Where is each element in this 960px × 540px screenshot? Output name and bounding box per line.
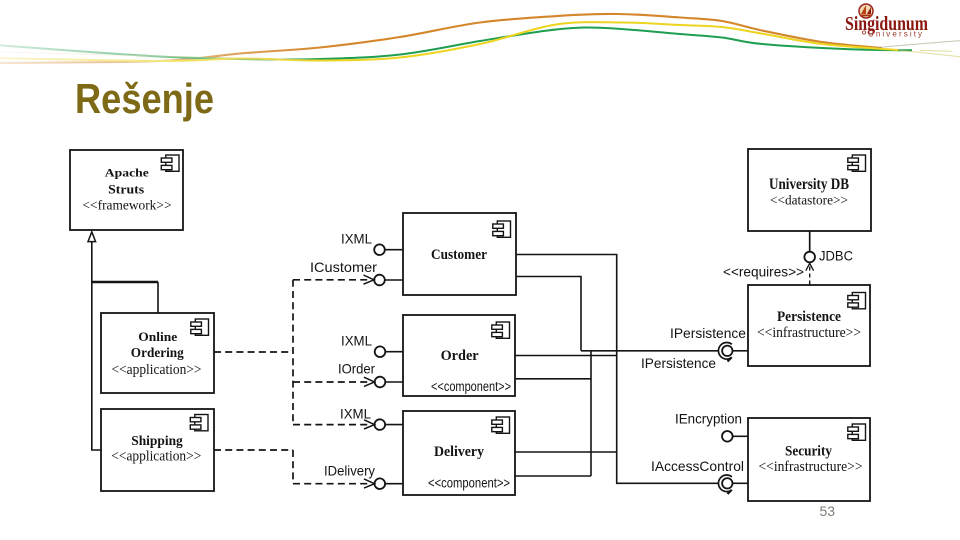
wire Customer to IPersistence (via V1) — [516, 277, 581, 351]
svg-text:<<datastore>>: <<datastore>> — [770, 194, 848, 209]
svg-text:Rešenje: Rešenje — [75, 75, 214, 122]
svg-text:Delivery: Delivery — [434, 444, 484, 460]
svg-text:IDelivery: IDelivery — [324, 463, 375, 479]
component University DB — [748, 149, 871, 231]
svg-text:<<application>>: <<application>> — [111, 449, 201, 465]
svg-text:<<component>>: <<component>> — [431, 379, 511, 394]
lollipop ICustomer — [374, 275, 403, 286]
svg-text:University DB: University DB — [769, 176, 849, 193]
dashed vertical junction B — [292, 450, 294, 484]
wire Delivery to V2 — [515, 451, 617, 453]
component Online Ordering — [101, 313, 214, 393]
lollipop IOrder — [375, 377, 403, 388]
svg-text:53: 53 — [820, 503, 836, 519]
wire V3 vertical — [590, 351, 592, 476]
svg-text:IXML: IXML — [340, 406, 371, 422]
dashed arrow into IOrder — [293, 377, 375, 386]
svg-text:Apache: Apache — [105, 166, 150, 180]
header wave orange — [0, 14, 882, 63]
svg-text:<<component>>: <<component>> — [428, 476, 510, 491]
dashed arrow into IXML Delivery — [293, 420, 375, 429]
svg-text:IPersistence: IPersistence — [641, 355, 716, 371]
component Security — [748, 418, 870, 501]
component icon Online Ordering — [191, 319, 209, 335]
socket IAccessControl — [718, 475, 748, 494]
header wave thin right — [878, 41, 960, 48]
svg-text:Struts: Struts — [108, 183, 144, 197]
svg-text:<<infrastructure>>: <<infrastructure>> — [759, 459, 863, 475]
header wave thin left — [0, 52, 310, 60]
lollipop IXML Delivery — [375, 419, 404, 430]
socket IPersistence — [718, 343, 748, 362]
lollipop IXML Order — [375, 346, 403, 357]
svg-text:JDBC: JDBC — [819, 248, 853, 264]
svg-text:IOrder: IOrder — [338, 361, 375, 377]
lollipop IEncryption — [722, 431, 748, 442]
header wave green — [0, 28, 912, 60]
svg-text:IAccessControl: IAccessControl — [651, 458, 744, 474]
component Apache Struts — [70, 150, 183, 230]
component Persistence — [748, 285, 870, 366]
logo emblem — [859, 4, 873, 18]
wire Delivery to V3 — [515, 475, 591, 477]
svg-text:<<application>>: <<application>> — [112, 362, 202, 378]
dashed wire Online Ordering to junction — [214, 351, 293, 353]
component icon Security — [848, 424, 866, 440]
lollipop IDelivery — [375, 478, 404, 489]
svg-text:Security: Security — [785, 443, 832, 459]
generalization triangle at Apache Struts — [88, 232, 96, 242]
wire Customer to IAccessControl (via V2) — [516, 255, 719, 484]
component Customer — [403, 213, 516, 295]
logo text University — [862, 31, 865, 34]
wire Order to V2 — [515, 355, 617, 357]
component Shipping — [101, 409, 214, 491]
dashed arrow into IDelivery — [293, 479, 375, 488]
svg-text:Customer: Customer — [431, 247, 487, 263]
svg-text:Persistence: Persistence — [777, 309, 841, 325]
svg-text:Order: Order — [441, 348, 479, 364]
svg-text:IXML: IXML — [341, 231, 372, 247]
svg-text:Shipping: Shipping — [131, 433, 183, 448]
svg-text:<<infrastructure>>: <<infrastructure>> — [757, 325, 861, 341]
dashed vertical junction A — [292, 280, 294, 425]
svg-text:IPersistence: IPersistence — [670, 325, 746, 341]
component icon Customer — [493, 221, 511, 237]
svg-text:ICustomer: ICustomer — [310, 259, 377, 275]
svg-text:<<requires>>: <<requires>> — [723, 264, 804, 280]
component icon Apache Struts — [161, 155, 179, 171]
component icon Order — [492, 322, 510, 338]
svg-text:IEncryption: IEncryption — [675, 411, 742, 427]
dashed requires arrow Persistence to JDBC — [806, 263, 814, 284]
dashed arrow into ICustomer — [293, 275, 374, 284]
svg-text:Ordering: Ordering — [131, 345, 184, 360]
wire University DB to JDBC ball — [809, 231, 811, 252]
wire Order to V3 — [515, 378, 591, 380]
dashed wire Shipping to junction — [214, 449, 293, 451]
component icon Delivery — [492, 417, 510, 433]
header wave yellow — [0, 22, 898, 61]
svg-text:Online: Online — [138, 330, 177, 344]
wire IPersistence horizontal — [581, 350, 719, 352]
realization wire Apache Struts to Online Ordering and Shipping — [92, 242, 158, 450]
component icon University DB — [848, 155, 866, 171]
svg-text:<<framework>>: <<framework>> — [83, 199, 172, 214]
component icon Persistence — [848, 293, 866, 309]
svg-text:University: University — [868, 30, 924, 39]
component icon Shipping — [190, 415, 208, 431]
svg-text:IXML: IXML — [341, 333, 372, 349]
lollipop IXML Customer — [374, 244, 403, 255]
lollipop JDBC ball — [804, 252, 815, 263]
component Delivery — [403, 411, 515, 495]
component Order — [403, 315, 515, 396]
